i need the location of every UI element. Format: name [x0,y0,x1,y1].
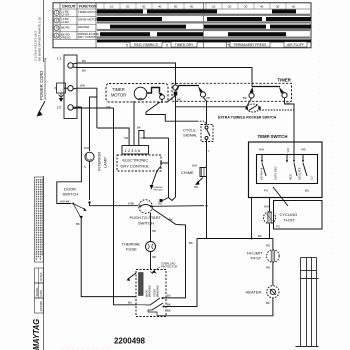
wire SW-A left drop [175,96,177,198]
function table row lines [53,9,311,40]
motor ground [128,273,136,279]
svg-text:10: 10 [110,5,114,9]
svg-text:2200498: 2200498 [39,301,43,312]
svg-text:1 2 3 4 5: 1 2 3 4 5 [125,148,141,153]
svg-text:BK: BK [177,98,181,102]
svg-text:30: 30 [244,5,248,9]
neutral lug box [57,83,66,93]
chart column dividers [204,3,227,48]
temp switch contacts [261,155,263,161]
wire door to push start [90,204,139,206]
svg-text:CIRCUIT: CIRCUIT [62,5,77,9]
strip border line bottom segment [43,176,45,350]
black cam bars row 3 [110,25,186,29]
svg-text:BK: BK [153,229,157,233]
svg-text:POWER CORD: POWER CORD [39,71,44,100]
electronic dry control [117,155,161,171]
svg-text:4: 4 [56,34,58,38]
svg-text:GROUND: GROUND [153,190,163,192]
black cam bars row 2 [97,17,162,21]
svg-text:BK: BK [153,255,157,259]
wire L2 run [73,107,114,110]
svg-text:3: 3 [56,26,58,30]
faint scan artifacts [62,348,109,349]
svg-text:BK: BK [243,96,247,100]
EDC ground [152,166,162,186]
svg-text:FUNCTION: FUNCTION [79,5,97,9]
svg-text:BK: BK [137,126,141,130]
svg-text:MOTOR: MOTOR [111,93,126,98]
hi-limit thermostat [247,251,263,261]
black cam bars row 1 [97,9,311,42]
svg-text:TIMER: TIMER [278,78,292,83]
svg-text:S: S [84,165,86,169]
timer cam switch B [252,86,280,88]
svg-text:40: 40 [260,5,264,9]
svg-text:BK: BK [189,241,193,245]
svg-text:TEMP SWITCH: TEMP SWITCH [258,134,288,139]
tiny row texts [61,10,99,40]
part number [114,336,145,346]
svg-text:20: 20 [126,5,130,9]
svg-text:5-BK: 5-BK [128,202,134,206]
wire L2/N main drop [114,108,137,305]
svg-text:TIMER MOTOR: TIMER MOTOR [78,10,98,14]
svg-text:L2: L2 [57,106,61,110]
svg-text:5: 5 [228,44,230,48]
fuzzy gray cam text rows [97,14,310,39]
temp switch outputs [251,198,253,239]
svg-text:CYCLING: CYCLING [280,212,298,217]
terminal N [68,86,73,91]
svg-text:DELICATE: DELICATE [298,167,302,180]
svg-text:WINDING: WINDING [156,285,160,297]
top rotated wire-code text [34,17,42,61]
svg-text:DRY CONTROL: DRY CONTROL [78,35,99,39]
motor internals [139,273,144,296]
interior lamp [85,152,94,161]
svg-text:CHASSIS: CHASSIS [153,186,163,189]
power cord label [39,71,44,100]
svg-text:5: 5 [126,44,128,48]
timer contact section dashed box [172,83,292,101]
svg-text:SWITCH: SWITCH [63,192,79,197]
timer cam switch A [173,85,178,90]
svg-text:TH'ST: TH'ST [284,218,296,223]
svg-text:PK: PK [207,96,211,100]
heater [246,290,262,295]
extra tumble wire [176,106,247,108]
svg-text:CHIME: CHIME [181,170,194,175]
svg-text:WINDING: WINDING [148,285,152,297]
svg-text:RD: RD [266,266,270,270]
circled row numbers 1-4 [54,10,59,38]
svg-text:HEATER: HEATER [78,25,89,29]
wire to motor via aux [152,209,186,298]
wire N to lamp [73,88,97,128]
svg-text:MAYTAG: MAYTAG [31,319,41,350]
svg-text:SERIAL: SERIAL [35,287,39,297]
svg-text:RD: RD [194,185,198,189]
terminal block [64,55,77,119]
push start through wire [151,205,204,208]
svg-text:BK-RD: BK-RD [61,26,70,30]
svg-text:L1: L1 [57,57,61,61]
door switch [63,187,79,197]
svg-text:SWITCH: SWITCH [138,221,154,226]
svg-text:PU: PU [276,225,280,229]
svg-text:DRY CONTROL: DRY CONTROL [121,164,151,169]
svg-text:DRIVE MOTOR: DRIVE MOTOR [78,18,98,22]
svg-text:L2-BU: L2-BU [61,20,69,24]
chime [181,170,194,175]
cycle signal [183,128,198,138]
svg-text:WH: WH [259,148,264,152]
svg-text:60: 60 [190,5,194,9]
svg-text:1: 1 [56,11,58,15]
svg-text:BK: BK [82,69,86,73]
push to start switch [139,200,153,214]
svg-text:PROTECTOR: PROTECTOR [161,265,177,269]
svg-text:L2-OR: L2-OR [61,13,69,17]
left bus to door switch [57,107,82,204]
strip border line top segment [43,0,45,62]
tick header numbers [110,5,296,9]
terminal L2 [68,105,73,110]
svg-text:N: N [55,87,58,91]
svg-text:LAMP: LAMP [103,157,108,168]
svg-text:RD: RD [158,202,162,206]
svg-text:Y: Y [208,149,210,153]
svg-text:30: 30 [142,5,146,9]
svg-text:TH'ST: TH'ST [250,256,262,261]
svg-text:RD: RD [141,136,145,140]
svg-text:PUSH TO START: PUSH TO START [130,215,162,220]
notes block with dense rotated text [35,177,44,262]
bottom black band [97,40,311,43]
svg-text:TIMED DRY: TIMED DRY [175,43,194,47]
svg-text:BU: BU [128,301,132,305]
svg-text:REG. FABRICS: REG. FABRICS [134,43,158,47]
svg-text:2200498: 2200498 [114,336,145,346]
svg-text:SIGNAL: SIGNAL [183,133,198,138]
svg-text:2: 2 [56,19,58,23]
svg-text:BU: BU [305,189,309,193]
svg-text:RD: RD [266,244,270,248]
power cord arrow [38,101,45,114]
svg-text:FUSE: FUSE [126,247,137,252]
node labels [55,57,62,110]
bottom cycle label boxes [126,42,307,48]
extra tumble rocker switch [247,104,260,112]
push start NC contact [160,199,163,202]
svg-text:AUTO REG: AUTO REG [274,167,278,181]
svg-text:PRESS: PRESS [61,35,71,39]
svg-text:BU: BU [167,294,171,298]
svg-text:NOTES: NOTES [39,272,43,281]
wire L1 upper bus BK [73,63,176,85]
right legend table [296,258,319,347]
svg-text:PERMANENT PRESS: PERMANENT PRESS [234,43,268,47]
drive motor dashed box [136,270,166,317]
svg-text:BK: BK [266,301,270,305]
svg-text:AIR FLUFF: AIR FLUFF [287,43,304,47]
EDC right contact T [160,161,162,165]
chime junction down [206,206,208,239]
terminal L1 [68,63,73,68]
wire SW-B right to temp [285,98,295,110]
svg-text:RD: RD [302,148,307,152]
wire timer motor to cycle signal step [146,102,197,121]
svg-text:BK: BK [169,218,173,222]
svg-text:VIO: VIO [286,148,290,152]
svg-text:DATE: DATE [39,290,43,297]
svg-text:BK: BK [76,222,80,226]
svg-text:10: 10 [212,5,216,9]
EDC terminal wires up [97,128,129,146]
svg-text:60: 60 [292,5,296,9]
title block small boxes [35,268,44,283]
svg-text:ELECTRONIC: ELECTRONIC [123,158,149,163]
black cam bars row 4 [100,32,150,36]
svg-text:WH: WH [80,84,85,88]
svg-text:RD-WH HI: RD-WH HI [260,167,264,180]
overload protector label [161,262,177,269]
thermal fuse [122,242,142,252]
svg-text:RD: RD [286,102,290,106]
svg-text:5: 5 [166,44,168,48]
left function table verticals [60,3,96,48]
wire SW-A to cycle signal [203,97,207,124]
svg-text:HEATER: HEATER [246,290,262,295]
wire junction y238 [197,238,273,240]
wire label BK [82,59,86,73]
svg-text:EXTRA TUMBLE ROCKER SWITCH: EXTRA TUMBLE ROCKER SWITCH [218,116,277,120]
svg-text:BK: BK [167,309,171,313]
neutral ground arrow [59,93,64,98]
svg-text:OR: OR [124,136,128,140]
svg-text:BK: BK [258,234,262,238]
svg-text:BK: BK [82,59,86,63]
svg-text:BK W/RD OFFSET WHITE 2 15: BK W/RD OFFSET WHITE 2 15 [38,17,42,61]
svg-text:MED: MED [289,174,293,180]
timer motor [134,87,147,100]
cycling thermostat [274,201,323,230]
wire L1 main bus [73,67,252,87]
timer motor switch contact [147,88,160,94]
svg-text:WH: WH [84,146,89,150]
svg-text:LO: LO [310,177,314,180]
svg-text:BK: BK [167,303,171,307]
svg-text:40: 40 [158,5,162,9]
svg-text:WH: WH [264,205,269,209]
svg-text:INTERIOR: INTERIOR [97,152,102,171]
svg-text:PU: PU [264,189,268,193]
svg-text:WH-BK: WH-BK [60,200,70,204]
temp switch [258,134,288,139]
centrifugal switch [150,298,160,305]
svg-text:TIMER: TIMER [112,87,125,92]
svg-text:WH: WH [192,164,197,168]
svg-text:20: 20 [228,5,232,9]
chart outer frame [53,3,311,48]
svg-text:50: 50 [174,5,178,9]
svg-text:50: 50 [276,5,280,9]
timer motor box [106,84,168,103]
